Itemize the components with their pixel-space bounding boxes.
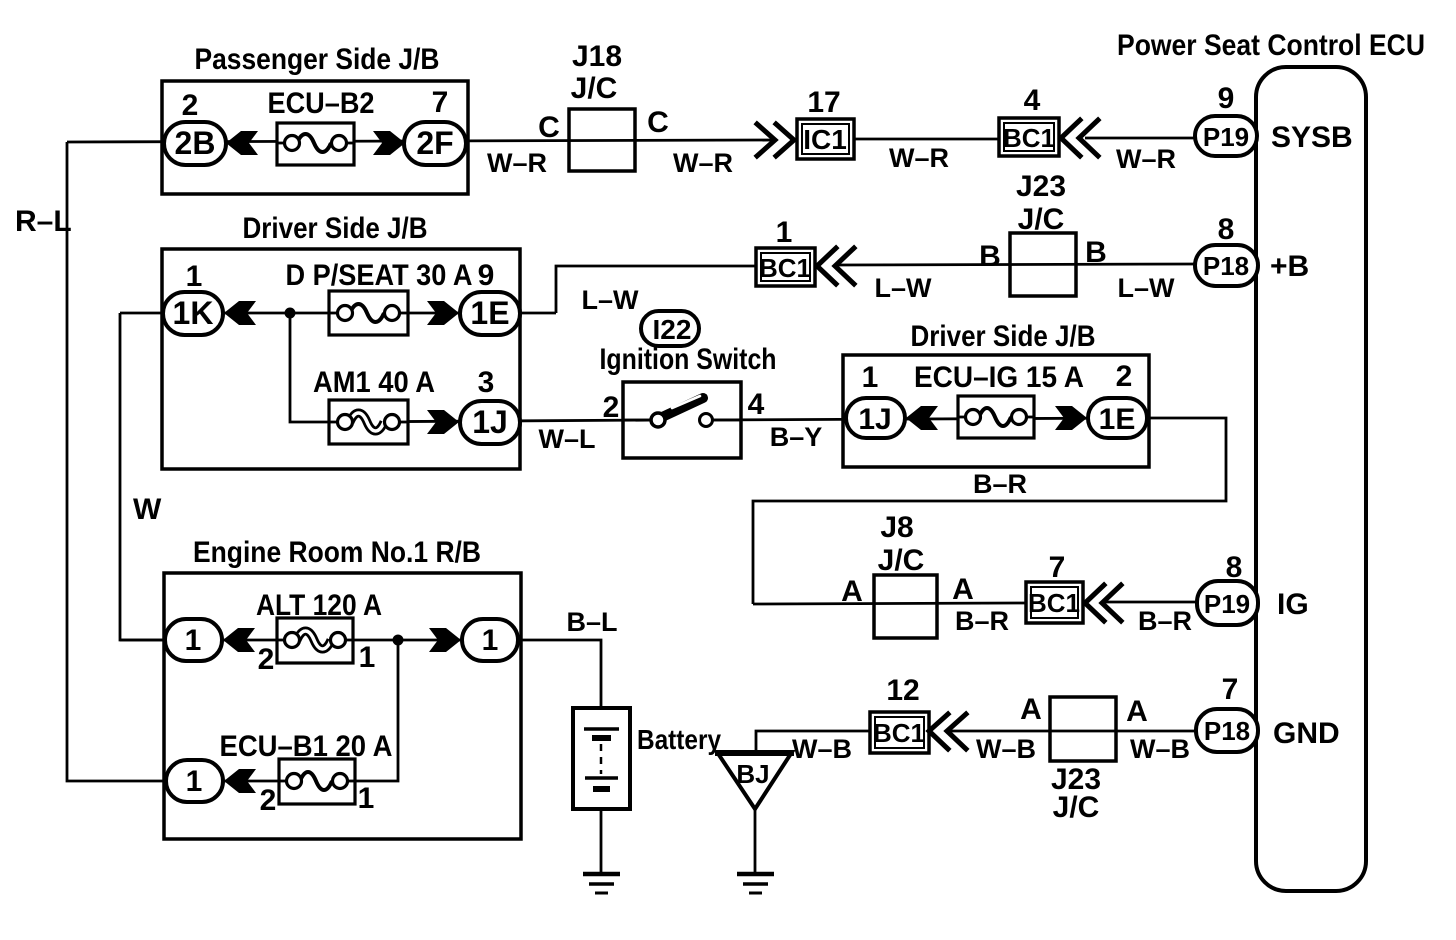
svg-text:GND: GND (1273, 717, 1340, 750)
svg-text:7: 7 (432, 86, 449, 119)
svg-text:B–R: B–R (973, 469, 1027, 499)
junction connector J23 J/C row2 (1010, 233, 1076, 296)
wire row1 SYSB feed W-R (67, 140, 776, 142)
wire ALT junction to ECU-B1 fuse (170, 640, 398, 781)
svg-text:W–R: W–R (1116, 144, 1176, 174)
wire AM1 branch vertical (290, 313, 330, 422)
svg-text:Power Seat Control ECU: Power Seat Control ECU (1117, 29, 1425, 62)
battery (573, 708, 630, 809)
svg-text:2: 2 (182, 89, 199, 122)
wire row4 B-Y (701, 418, 1147, 420)
connector ALT oval right (462, 619, 518, 661)
fuse D P/SEAT 30 A (329, 291, 408, 335)
wire W vertical (120, 313, 168, 640)
arrow right at 1J (427, 410, 459, 434)
connector ECU-B1 oval left (166, 760, 223, 802)
chevrons left after BC1 row1 (1061, 120, 1098, 156)
svg-text:L–W: L–W (582, 285, 640, 315)
svg-text:2: 2 (258, 643, 275, 676)
svg-text:1E: 1E (470, 295, 509, 331)
svg-text:2B: 2B (175, 125, 216, 161)
arrow right at 1E (427, 301, 459, 325)
svg-text:J/C: J/C (571, 72, 618, 105)
wire row3 1K feed (120, 312, 556, 315)
junction box Engine Room No.1 R/B (164, 573, 521, 839)
svg-text:D P/SEAT 30 A: D P/SEAT 30 A (286, 259, 473, 292)
svg-text:ECU–B2: ECU–B2 (268, 87, 375, 120)
svg-text:B–L: B–L (566, 607, 617, 637)
svg-text:1E: 1E (1099, 403, 1136, 436)
svg-text:A: A (841, 575, 863, 608)
splice BC1 row6 (870, 712, 929, 753)
svg-text:J/C: J/C (1053, 791, 1100, 824)
svg-text:1: 1 (359, 641, 376, 674)
wire row5 IG B-R (753, 603, 1026, 604)
connector 1E right (1088, 398, 1147, 438)
arrow right at ALT row (429, 628, 461, 652)
svg-text:B–Y: B–Y (770, 422, 823, 452)
fuse ECU-B2 (277, 123, 354, 165)
svg-text:BJ: BJ (736, 759, 769, 789)
svg-text:ECU–IG 15 A: ECU–IG 15 A (914, 361, 1084, 394)
svg-text:J23: J23 (1016, 170, 1066, 203)
node junction dot ALT row (393, 635, 404, 646)
connector pin P18 GND (1196, 709, 1258, 752)
svg-text:W–R: W–R (889, 143, 949, 173)
svg-text:2F: 2F (416, 125, 453, 161)
chevrons left after BC1 row6 (929, 714, 966, 749)
svg-text:B: B (1085, 236, 1107, 269)
junction connector J8 J/C (874, 575, 937, 638)
fuse AM1 40 A (329, 400, 408, 444)
svg-text:BC1: BC1 (873, 718, 925, 748)
chevrons left after BC1 row5 (1085, 585, 1121, 621)
wire R-L vertical left (67, 142, 170, 781)
svg-text:Engine Room No.1 R/B: Engine Room No.1 R/B (193, 536, 481, 569)
svg-text:7: 7 (1049, 551, 1066, 584)
wire row4 ignition W-L (330, 420, 663, 422)
arrow left at ALT fuse (223, 628, 255, 652)
svg-text:P18: P18 (1204, 716, 1250, 746)
svg-text:R–L: R–L (15, 205, 72, 238)
svg-text:1J: 1J (472, 404, 508, 440)
svg-text:IC1: IC1 (803, 124, 847, 155)
arrow right at 2F (373, 131, 405, 155)
fuse ECU-IG 15 A (958, 396, 1034, 438)
svg-text:W–R: W–R (673, 148, 733, 178)
svg-text:B: B (979, 240, 1001, 273)
switch lever (660, 398, 703, 418)
arrow left at ECU-B1 fuse (224, 769, 256, 793)
svg-text:1K: 1K (173, 295, 214, 331)
splice BC1 row2 (756, 248, 815, 286)
svg-text:C: C (538, 111, 560, 144)
connector pin P19 IG (1197, 581, 1258, 625)
ground BJ (737, 874, 774, 893)
svg-text:1: 1 (358, 782, 375, 815)
connector 1K (163, 292, 223, 335)
svg-text:9: 9 (478, 259, 495, 292)
svg-text:AM1 40 A: AM1 40 A (313, 366, 435, 399)
wire BJ to ground (754, 806, 757, 873)
connector 1J (460, 401, 520, 444)
svg-text:8: 8 (1218, 213, 1235, 246)
ground BJ triangle (715, 752, 794, 809)
svg-text:ECU–B1 20 A: ECU–B1 20 A (220, 730, 393, 763)
svg-text:P18: P18 (1203, 251, 1249, 281)
svg-text:C: C (647, 106, 669, 139)
junction box Driver Side J/B left (162, 249, 520, 469)
wire B-R return loop (753, 418, 1226, 604)
svg-text:Passenger Side J/B: Passenger Side J/B (195, 43, 440, 76)
svg-text:17: 17 (807, 86, 840, 119)
wire row ALT B-L (120, 640, 601, 708)
svg-text:7: 7 (1222, 673, 1239, 706)
svg-text:Driver Side J/B: Driver Side J/B (243, 212, 428, 245)
svg-text:L–W: L–W (875, 273, 933, 303)
svg-text:1J: 1J (858, 403, 891, 436)
arrow right in right JB (1055, 406, 1087, 430)
wire row6 GND W-B (756, 731, 870, 753)
svg-text:+B: +B (1270, 250, 1309, 283)
fuse ALT 120 A (277, 618, 353, 663)
svg-text:8: 8 (1226, 551, 1243, 584)
switch ignition switch box (623, 382, 741, 458)
connector 2F (404, 122, 466, 165)
connector 1E (460, 292, 520, 335)
svg-text:A: A (1126, 695, 1148, 728)
svg-text:W: W (133, 493, 162, 526)
chevrons left after BC1 row2 (817, 248, 854, 284)
wire battery to ground (600, 809, 603, 873)
ECU box Power Seat Control ECU (1256, 67, 1366, 891)
svg-text:9: 9 (1218, 82, 1235, 115)
connector pin P18 +B (1195, 245, 1258, 286)
svg-text:W–R: W–R (487, 148, 547, 178)
junction box Passenger Side J/B (162, 81, 468, 194)
svg-text:IG: IG (1277, 588, 1309, 621)
splice IC1 (797, 119, 854, 159)
connector pin P19 SYSB (1195, 116, 1257, 156)
svg-text:1: 1 (776, 216, 793, 249)
splice BC1 row5 (1026, 582, 1083, 623)
svg-text:W–B: W–B (1130, 734, 1190, 764)
svg-text:1: 1 (186, 260, 203, 293)
svg-text:W–B: W–B (976, 734, 1036, 764)
svg-text:I22: I22 (653, 314, 692, 345)
svg-text:1: 1 (185, 624, 202, 657)
connector 1J right (846, 398, 905, 438)
svg-text:ALT 120 A: ALT 120 A (256, 589, 382, 622)
connector 2B (164, 122, 226, 165)
arrow left in right JB (906, 406, 938, 430)
svg-text:2: 2 (260, 784, 277, 817)
svg-text:B–R: B–R (1138, 606, 1192, 636)
svg-text:1: 1 (862, 361, 879, 394)
arrow left at 2B (226, 131, 258, 155)
svg-text:J/C: J/C (878, 544, 925, 577)
junction connector J18 J/C (569, 109, 635, 171)
svg-text:P19: P19 (1204, 589, 1250, 619)
junction box Driver Side J/B right (843, 355, 1149, 467)
svg-text:1: 1 (186, 765, 203, 798)
svg-text:12: 12 (886, 674, 919, 707)
svg-text:4: 4 (1024, 84, 1041, 117)
svg-text:BC1: BC1 (1003, 123, 1055, 153)
svg-text:2: 2 (603, 391, 620, 424)
arrow left at 1K (224, 301, 256, 325)
svg-text:1: 1 (482, 624, 499, 657)
svg-text:W–B: W–B (792, 734, 852, 764)
svg-text:J18: J18 (572, 40, 622, 73)
svg-text:L–W: L–W (1118, 273, 1176, 303)
svg-text:4: 4 (748, 388, 765, 421)
ground battery (583, 874, 620, 893)
svg-text:Battery: Battery (637, 724, 721, 755)
svg-text:BC1: BC1 (1028, 588, 1080, 618)
svg-text:P19: P19 (1203, 122, 1249, 152)
svg-text:J/C: J/C (1018, 203, 1065, 236)
fuse ECU-B1 20 A (279, 759, 355, 804)
svg-text:BC1: BC1 (759, 253, 811, 283)
node junction dot row3 (285, 308, 296, 319)
svg-text:B–R: B–R (955, 606, 1009, 636)
splice BC1 row1 (999, 118, 1059, 156)
svg-text:3: 3 (478, 366, 495, 399)
svg-text:Driver Side J/B: Driver Side J/B (911, 320, 1096, 353)
chevrons right before IC1 (757, 124, 794, 156)
connector I22 (641, 311, 699, 346)
junction connector J23 J/C row6 (1050, 697, 1116, 761)
svg-text:A: A (1020, 693, 1042, 726)
svg-text:Ignition Switch: Ignition Switch (600, 343, 777, 376)
svg-text:J8: J8 (880, 511, 913, 544)
svg-text:2: 2 (1116, 360, 1133, 393)
svg-text:W–L: W–L (539, 424, 596, 454)
svg-text:A: A (952, 573, 974, 606)
wire row2 +B L-W (556, 266, 756, 313)
connector ALT oval left (165, 619, 222, 661)
svg-text:SYSB: SYSB (1271, 121, 1353, 154)
